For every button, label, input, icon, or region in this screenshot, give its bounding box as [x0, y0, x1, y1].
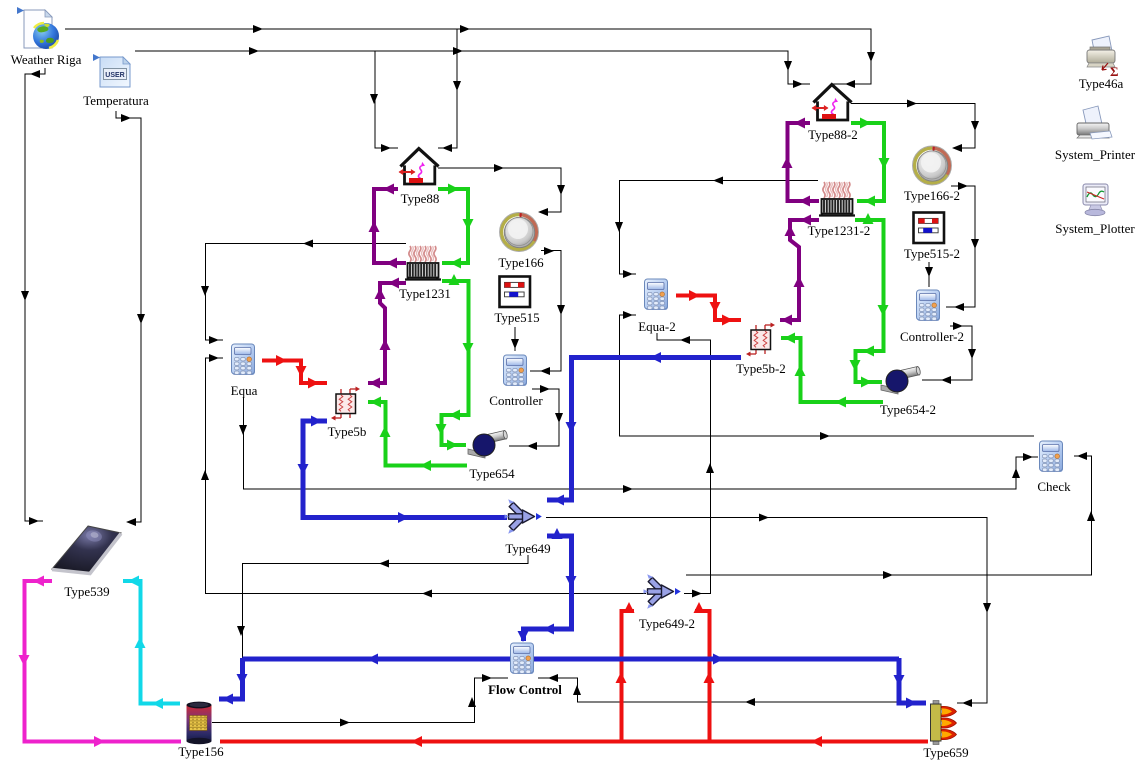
- arrows Type88-2-Type166-2: [907, 100, 917, 108]
- wire red riser to Type649-2 left: [622, 611, 635, 741]
- arrows Equa-2 top line: [820, 432, 830, 440]
- arrows red Equa-2-Type5b-2: [689, 290, 700, 301]
- wire cyan Type156 to Type539: [123, 581, 180, 704]
- arrows tank to Flow Control: [340, 719, 350, 727]
- svg-text:Type5b: Type5b: [328, 424, 367, 439]
- arrows Type649 label to tank: [379, 560, 389, 568]
- wire weather-riga to Type88-2 right (top line 1): [65, 29, 871, 84]
- component Controller calculator: [504, 355, 528, 386]
- svg-text:Weather Riga: Weather Riga: [11, 52, 82, 67]
- svg-text:Type166-2: Type166-2: [904, 188, 960, 203]
- wire green Type1231 to Type654 pump: [442, 281, 469, 445]
- wire Type156 to Flow Control left: [212, 678, 508, 723]
- component System_Printer: [1077, 106, 1112, 139]
- arrow Type515-Controller: [511, 339, 519, 349]
- svg-text:Type5b-2: Type5b-2: [736, 361, 786, 376]
- wire red riser to Type649-2 right: [695, 611, 710, 741]
- arrows red bottom line: [811, 736, 822, 747]
- wire purple Type88 to Type1231 left loop: [368, 123, 819, 383]
- svg-text:Flow Control: Flow Control: [488, 682, 562, 697]
- arrows branch Type88 right: [453, 81, 461, 91]
- svg-text:Type659: Type659: [923, 745, 968, 760]
- svg-text:Type654: Type654: [469, 466, 515, 481]
- svg-text:Type1231: Type1231: [399, 286, 451, 301]
- arrows red riser right: [704, 672, 715, 683]
- wire green Type654-2 pump to Type5b-2: [781, 338, 883, 402]
- svg-text:Controller-2: Controller-2: [900, 329, 964, 344]
- wire Type88-2 to Type166-2: [851, 104, 975, 149]
- svg-text:System_Plotter: System_Plotter: [1055, 221, 1135, 236]
- wire green Type1231-2 to Type654-2 pump: [855, 220, 884, 382]
- svg-text:Type649-2: Type649-2: [639, 616, 695, 631]
- component Type659 auxiliary heater: [931, 701, 957, 745]
- svg-text:Temperatura: Temperatura: [83, 93, 149, 108]
- component Type649 diverter: [505, 499, 542, 534]
- component Type5b-2 heat exchanger: [746, 323, 775, 357]
- component Type1231-2 radiator: [819, 182, 855, 216]
- arrows blue main line: [367, 654, 378, 665]
- wire Type166 to Controller: [530, 251, 561, 372]
- arrows red Equa-Type5b: [276, 290, 822, 747]
- component Type88 house: [399, 149, 438, 184]
- component Type654-2 pump: [881, 366, 921, 394]
- arrows purple Type5b-2 riser: [800, 215, 811, 226]
- wire Type649-2 left line to Equa: [206, 358, 647, 594]
- arrows Type166-2-Controller-2: [958, 182, 968, 190]
- arrows jet1 output to Type659: [759, 514, 769, 522]
- wire blue branch to Type659: [899, 658, 926, 703]
- arrows magenta: [19, 576, 106, 748]
- arrows purple loop1: [369, 118, 812, 389]
- arrows Controller-pump: [540, 385, 550, 393]
- wire purple Type1231 to Type5b: [368, 283, 406, 383]
- arrows red riser left: [616, 672, 627, 683]
- arrows blue Type5b-2 to jet1: [222, 352, 917, 709]
- svg-text:Type654-2: Type654-2: [880, 402, 936, 417]
- svg-text:Type539: Type539: [64, 584, 109, 599]
- component Equa-2 calculator: [645, 279, 669, 310]
- component Type539 solar collector: [52, 526, 121, 574]
- component Controller-2 calculator: [917, 290, 941, 321]
- wire red Type659 to Type156 bottom line: [220, 740, 928, 744]
- arrow Type515-2-Controller-2: [925, 267, 933, 277]
- svg-text:Equa-2: Equa-2: [638, 319, 676, 334]
- svg-text:Type649: Type649: [505, 541, 550, 556]
- component System_Plotter: [1083, 184, 1108, 216]
- component Weather Riga (weather data file with globe): [17, 7, 59, 49]
- wire blue Type5b riser to Type649 left: [303, 421, 507, 518]
- arrows on weather line 1: [253, 25, 263, 33]
- arrows Type1231-2-Equa-2: [713, 177, 723, 185]
- arrows branch Type88 left: [370, 94, 378, 104]
- wire branch to Type88 left: [375, 51, 398, 148]
- wire magenta Type539 to Type156: [25, 581, 182, 742]
- arrows purple loop2: [794, 118, 805, 129]
- svg-text:Type156: Type156: [178, 744, 224, 759]
- svg-text:Type515: Type515: [494, 310, 539, 325]
- component Type88-2 house: [812, 85, 851, 120]
- wire Type649 output to Type659 right: [546, 518, 987, 704]
- arrows jet2 top line to Check: [883, 571, 893, 579]
- component Type156 storage tank: [187, 702, 212, 745]
- wire blue Type5b-2 to Type649 top: [219, 358, 926, 704]
- arrows green rad1-pump1: [449, 274, 460, 285]
- arrows green pump2-Type5b-2: [835, 397, 846, 408]
- wire Controller-2 to Type654-2 pump: [922, 326, 972, 380]
- wire Type515 to Controller: [514, 327, 516, 351]
- arrows Type1231-Equa: [303, 240, 313, 248]
- component Type649-2 diverter: [644, 574, 681, 609]
- wire temperatura output long vertical to Type539: [116, 111, 141, 522]
- arrows Type659 to Flow Control: [745, 698, 755, 706]
- wire green Type88-2 to Type1231-2 right loop: [851, 123, 884, 201]
- component Temperatura (user data file): [93, 54, 130, 87]
- wire Equa-2 to Check top line: [620, 315, 1035, 436]
- arrows temperatura output: [121, 114, 131, 122]
- arrows blue Type659 branch: [894, 675, 905, 686]
- component Flow Control calculator: [511, 643, 535, 674]
- component Type5b heat exchanger: [331, 387, 360, 421]
- wire green Type654 pump to Type5b: [368, 402, 467, 466]
- arrows green loop2: [860, 118, 871, 129]
- component Type1231 radiator: [405, 246, 441, 280]
- wire Type659 to Flow Control right: [538, 678, 924, 702]
- svg-text:Type46a: Type46a: [1079, 76, 1124, 91]
- wire branch to Type88 right: [438, 29, 457, 148]
- svg-text:System_Printer: System_Printer: [1055, 147, 1136, 162]
- wire red Equa to Type5b: [220, 296, 928, 742]
- arrows green rad2-pump2: [863, 213, 874, 224]
- arrows Type166-Controller: [544, 247, 554, 255]
- arrows green loop1: [370, 118, 890, 472]
- arrows Equa-Check: [239, 425, 247, 435]
- svg-text:USER: USER: [105, 72, 124, 79]
- component Type515: [500, 277, 531, 308]
- wire Controller to Type654 pump: [509, 389, 559, 446]
- arrows cyan: [128, 576, 163, 710]
- arrows jet2 output up: [692, 590, 702, 598]
- wire Type649-2 top line to Check right: [686, 456, 1092, 575]
- component Type166 dial: [500, 213, 539, 252]
- wire temperatura to Type88-2 left (top line 2): [135, 51, 810, 84]
- svg-text:Equa: Equa: [231, 383, 258, 398]
- component Type515-2: [914, 213, 945, 244]
- arrows jet2 line-Equa: [422, 590, 432, 598]
- wire purple Type88-2 to Type1231-2 left loop: [788, 123, 820, 201]
- svg-text:Controller: Controller: [489, 393, 543, 408]
- wire Type88 to Type166: [438, 168, 561, 212]
- wire Equa bottom to Check left: [244, 397, 1039, 489]
- arrows weather label output: [30, 70, 40, 78]
- wire red Equa-2 to Type5b-2: [676, 296, 741, 321]
- component Type654 pump: [468, 430, 508, 458]
- svg-text:Type88: Type88: [401, 191, 440, 206]
- arrows purple Type5b riser: [388, 278, 399, 289]
- svg-text:Type1231-2: Type1231-2: [808, 223, 871, 238]
- wire purple Type1231-2 to Type5b-2: [780, 220, 819, 320]
- arrows blue Type5b riser: [311, 416, 322, 427]
- wire blue main bottom line to Type156: [219, 658, 899, 699]
- component Check calculator: [1040, 441, 1064, 472]
- arrows Type88-Type166: [494, 164, 504, 172]
- svg-text:Type515-2: Type515-2: [904, 246, 960, 261]
- arrows green pump1-Type5b: [420, 460, 431, 471]
- svg-text:Type166: Type166: [498, 255, 544, 270]
- wire green Type88 to Type1231 right loop: [368, 123, 884, 466]
- arrows Controller-2-pump2: [953, 322, 963, 330]
- component Type46a printer with sum: [1087, 36, 1119, 79]
- wire Type166-2 to Controller-2: [946, 186, 975, 307]
- wire weather-riga label output down-left long vertical to Type539: [25, 68, 45, 521]
- arrows blue jet1-FlowControl: [552, 528, 563, 539]
- svg-text:Check: Check: [1037, 479, 1071, 494]
- component Equa calculator: [232, 344, 256, 375]
- arrows on weather line 2: [249, 47, 259, 55]
- component Type166-2 dial: [913, 146, 952, 185]
- wire Type515-2 to Controller-2: [928, 262, 930, 287]
- svg-text:Type88-2: Type88-2: [808, 127, 858, 142]
- wire Type1231 to Equa: [206, 244, 407, 341]
- wire blue Type649 bottom to Flow Control: [524, 536, 572, 641]
- wire Type1231-2 to Equa-2: [620, 181, 819, 275]
- wire Type649-2 output up to Equa-2: [657, 333, 711, 594]
- wire Type649 label output to Type156: [220, 555, 528, 699]
